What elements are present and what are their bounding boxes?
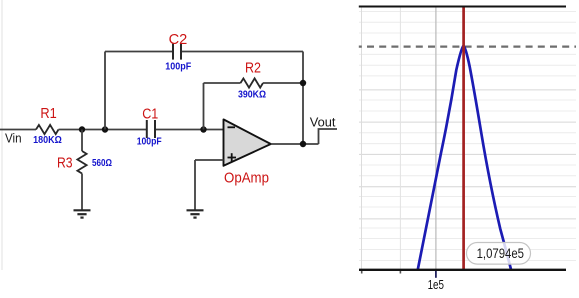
axis tick small 1 — [361, 271, 363, 274]
svg-text:R2: R2 — [245, 61, 261, 77]
left panel border — [1, 0, 3, 270]
svg-text:OpAmp: OpAmp — [224, 171, 269, 187]
node junction B (C2 branch) — [102, 126, 108, 132]
svg-text:1,0794e5: 1,0794e5 — [477, 246, 524, 261]
wire R3 to ground — [81, 174, 83, 211]
svg-text:Vin: Vin — [5, 131, 22, 146]
svg-text:180KΩ: 180KΩ — [33, 135, 62, 146]
wire R2 to feedback node — [263, 82, 303, 84]
svg-text:C1: C1 — [142, 106, 158, 122]
plot bottom axis — [359, 269, 566, 271]
ground (op-amp) — [187, 210, 204, 217]
wire feedback vertical — [302, 52, 304, 145]
dashed peak level line — [359, 45, 576, 47]
curve bode magnitude (blue) — [418, 46, 511, 270]
wire C1 to op-amp minus input — [156, 129, 224, 131]
node output junction — [300, 141, 306, 147]
axis tick small 2 — [399, 271, 401, 274]
tooltip 1,0794e5 — [467, 243, 531, 265]
wire op-amp output — [271, 143, 319, 145]
plot vertical gridline x3 (1e5) — [435, 7, 437, 270]
svg-text:100pF: 100pF — [165, 62, 191, 73]
svg-text:560Ω: 560Ω — [92, 158, 112, 169]
pin minus symbol — [228, 126, 236, 128]
capacitor C1 — [147, 120, 155, 138]
svg-text:C2: C2 — [169, 32, 188, 48]
wire Vout step up — [319, 129, 338, 144]
resistor R2 — [241, 78, 264, 87]
node junction C (R2 branch) — [200, 126, 206, 132]
pin plus symbol — [228, 153, 237, 162]
wire top-left to C2 — [105, 51, 172, 53]
node junction A (R1/R3) — [79, 126, 85, 132]
wire plus input down — [194, 160, 196, 210]
wire R1 to C1 — [59, 129, 147, 131]
plot vertical gridline x2 — [399, 7, 401, 270]
resistor R1 — [36, 125, 58, 134]
plot top border — [359, 5, 566, 7]
wire C2 to feedback corner — [182, 51, 303, 53]
axis tick 1e5 — [435, 271, 437, 278]
node junction D (R2/feedback) — [300, 80, 306, 86]
plot major horizontal gridlines — [359, 90, 576, 219]
ground (R3) — [74, 210, 91, 217]
svg-text:Vout: Vout — [310, 115, 336, 130]
plot minor horizontal gridlines — [359, 12, 576, 261]
op-amp U1 — [224, 119, 271, 165]
capacitor C2 — [173, 44, 181, 60]
svg-text:390KΩ: 390KΩ — [238, 90, 266, 101]
marker red vertical line — [462, 8, 465, 270]
wire to R2 — [204, 82, 241, 84]
resistor R3 — [77, 151, 86, 174]
wire R3 branch down — [81, 130, 83, 152]
svg-text:1e5: 1e5 — [428, 278, 444, 292]
wire Vin to R1 — [0, 129, 36, 131]
wire R2 branch up — [203, 83, 205, 130]
svg-text:R3: R3 — [57, 156, 73, 172]
wire C2 branch up — [104, 52, 106, 130]
plot vertical gridline x1 — [361, 7, 363, 270]
svg-text:100pF: 100pF — [137, 137, 162, 148]
svg-text:R1: R1 — [40, 106, 56, 122]
wire plus input — [195, 159, 224, 161]
